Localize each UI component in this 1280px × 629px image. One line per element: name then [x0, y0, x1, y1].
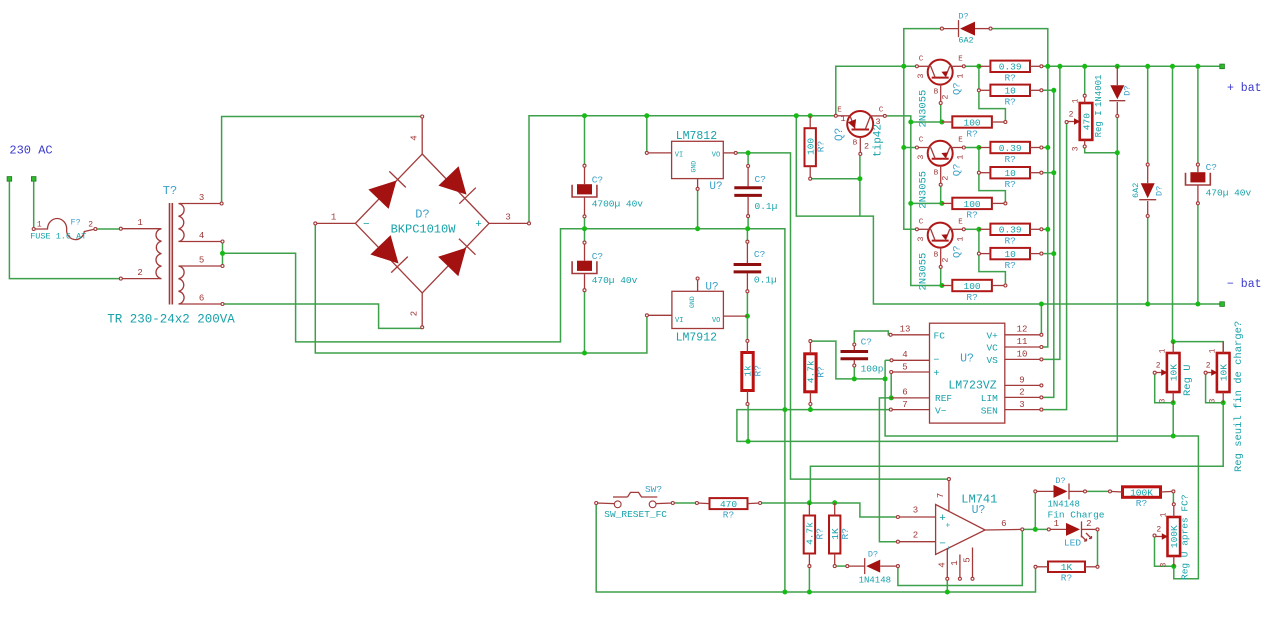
wire R2-3 elbow: [979, 254, 1006, 286]
svg-text:−: −: [363, 219, 370, 231]
svg-text:C: C: [879, 107, 884, 115]
resistor R7 470: [710, 498, 748, 509]
svg-text:3: 3: [505, 213, 510, 223]
wire bridge plus output to +V unregulated rail: [529, 116, 836, 224]
wire C4 bottom / LM7912 VO / R top node: [746, 291, 748, 341]
regulator U2 LM7912: [672, 291, 724, 328]
wire switch to R7: [673, 502, 697, 504]
junction at 1060,66: [1057, 64, 1062, 69]
junction at 1173,436: [1171, 434, 1176, 439]
wire C6 bottom to -bat: [1197, 203, 1199, 304]
svg-text:2N3055: 2N3055: [918, 171, 930, 209]
resistor R2c 10: [990, 248, 1030, 259]
junction at 785,592: [782, 590, 787, 595]
svg-text:D?: D?: [415, 208, 429, 222]
svg-text:10: 10: [1017, 350, 1028, 360]
wire LM723 pin4 elbow and line A to Reg U wiper net: [885, 359, 891, 361]
junction at 584,353: [582, 351, 587, 356]
regulator U1 LM7812: [672, 141, 724, 178]
svg-text:Reg U: Reg U: [1182, 364, 1194, 396]
svg-text:TR 230-24x2 200VA: TR 230-24x2 200VA: [107, 313, 235, 327]
trimpot Reg U 10K: [1167, 353, 1180, 392]
resistor R3c 100: [952, 280, 992, 291]
wire Reg seuil pin3 to 470 line: [810, 403, 1223, 503]
svg-text:U?: U?: [960, 353, 974, 366]
svg-text:R?: R?: [1004, 97, 1015, 108]
svg-text:1N4148: 1N4148: [1048, 499, 1080, 509]
wire +bat to LM723 VS: [1041, 66, 1060, 359]
wire transformer pin3 to bridge pin4 (AC1): [222, 117, 422, 204]
junction at 1048,148: [1045, 145, 1050, 150]
svg-text:13: 13: [900, 325, 911, 335]
wire rail to LM7812 VI: [646, 116, 648, 153]
junction at 1148,66: [1145, 64, 1150, 69]
svg-text:1: 1: [137, 218, 142, 228]
svg-text:4: 4: [902, 350, 907, 360]
junction at 222,253: [220, 251, 225, 256]
wire R2-1 left to R3-1 right elbow: [979, 90, 1006, 122]
IC U3 LM723 box: [930, 323, 1005, 423]
svg-text:R?: R?: [1004, 73, 1015, 84]
svg-text:1: 1: [840, 114, 845, 124]
svg-text:1K: 1K: [1061, 562, 1073, 573]
svg-text:B: B: [934, 89, 939, 97]
wire LM723 pin5 to REF: [890, 372, 892, 398]
wire R9 bottom to D4 anode: [835, 565, 848, 567]
resistor R10 100K bold: [1123, 487, 1161, 498]
svg-text:10: 10: [1004, 86, 1016, 97]
svg-text:Reg seuil fin de charge?: Reg seuil fin de charge?: [1233, 321, 1245, 472]
svg-text:V+: V+: [986, 331, 998, 342]
svg-text:2: 2: [1156, 526, 1161, 535]
svg-text:2: 2: [941, 176, 951, 181]
capacitor C4 0.1u: [734, 263, 762, 266]
svg-text:470µ 40v: 470µ 40v: [1206, 188, 1252, 199]
svg-text:VI: VI: [675, 317, 683, 325]
junction at 698,229: [695, 226, 700, 231]
wire Reg I pin3 to D2 cathode column: [1085, 147, 1118, 153]
terminal +bat: [1220, 64, 1225, 69]
svg-text:R?: R?: [1136, 498, 1147, 509]
junction at 1048,66: [1045, 64, 1050, 69]
junction at 1054,173: [1051, 170, 1056, 175]
svg-text:2: 2: [1019, 388, 1024, 398]
svg-text:VC: VC: [986, 343, 998, 354]
wire Reg U / Reg seuil pin1 feed from +bat: [1173, 66, 1224, 353]
svg-text:0.39: 0.39: [999, 143, 1022, 154]
svg-text:1: 1: [1209, 348, 1218, 353]
svg-text:3: 3: [1159, 562, 1168, 567]
wire R6 bottom to V- line: [809, 404, 811, 410]
wire Q3 emitter junction down: [978, 229, 980, 253]
capacitor C5 100p: [841, 350, 869, 353]
wire Q3 E to R1-3: [964, 228, 979, 230]
svg-text:4: 4: [938, 562, 948, 567]
transistor Q2 2N3055 #1: [928, 60, 953, 85]
svg-text:+: +: [933, 369, 939, 380]
junction at 854,379: [852, 376, 857, 381]
svg-text:R?: R?: [1004, 260, 1015, 271]
resistor R1a 0.39: [990, 61, 1030, 72]
wire Reg U wiper to pin3: [1155, 373, 1174, 403]
junction at 1054,254: [1051, 251, 1056, 256]
svg-text:D?: D?: [1123, 85, 1133, 95]
svg-text:5: 5: [902, 363, 907, 373]
svg-text:C: C: [919, 56, 924, 64]
wire C3 top to +12V: [747, 153, 749, 166]
svg-text:Q?: Q?: [952, 82, 964, 95]
svg-text:1: 1: [950, 560, 960, 565]
svg-text:2: 2: [941, 257, 951, 262]
svg-text:470µ 40v: 470µ 40v: [592, 275, 638, 286]
svg-text:BKPC1010W: BKPC1010W: [391, 223, 457, 237]
svg-text:3: 3: [916, 73, 926, 78]
svg-text:100p: 100p: [861, 364, 884, 375]
wire output node up to D5 anode: [1034, 491, 1036, 529]
svg-text:C?: C?: [592, 251, 603, 262]
svg-text:R?: R?: [1004, 154, 1015, 165]
svg-text:0.1µ: 0.1µ: [754, 275, 777, 286]
svg-text:Reg I: Reg I: [1094, 110, 1104, 137]
capacitor C6 470u: [1190, 172, 1205, 182]
svg-text:D?: D?: [1055, 476, 1065, 486]
wire C6 top to +bat: [1197, 66, 1199, 164]
wire D1 anode down the output column to LM723 VC: [991, 29, 1048, 347]
wire Q1 emitter junction down to R2: [978, 66, 980, 90]
junction at 584,229: [582, 226, 587, 231]
junction at 810,410: [808, 407, 813, 412]
resistor R3b 100: [952, 198, 992, 209]
svg-text:GND: GND: [689, 296, 696, 308]
wire base drive to Q2 base node: [911, 202, 942, 204]
junction at 1223,403: [1221, 400, 1226, 405]
svg-text:LIM: LIM: [981, 393, 998, 404]
wire transformer center tap pins 4-5: [222, 242, 224, 267]
svg-text:1: 1: [1159, 348, 1168, 353]
svg-text:R?: R?: [966, 128, 977, 139]
svg-text:10: 10: [1004, 168, 1016, 179]
svg-text:1: 1: [956, 236, 966, 241]
terminal -bat: [1220, 302, 1225, 307]
svg-text:LED: LED: [1064, 538, 1081, 549]
junction at 979,229: [976, 227, 981, 232]
svg-text:B: B: [934, 252, 939, 260]
wire R6 top to LM723 minus input node: [810, 341, 885, 379]
LM723 left pins: [891, 334, 930, 336]
wire base drive to Q1 base node: [911, 121, 942, 123]
svg-text:10K: 10K: [1219, 364, 1230, 381]
junction at 748,153: [746, 150, 751, 155]
svg-text:B: B: [934, 170, 939, 178]
junction at 904,66: [901, 64, 906, 69]
junction at 835,503: [832, 500, 837, 505]
svg-text:T?: T?: [163, 184, 177, 198]
wire REF divider down to LM741 inverting input: [879, 398, 898, 542]
svg-text:2: 2: [913, 531, 918, 541]
svg-text:100: 100: [964, 199, 981, 210]
wire bridge minus output to LM7912 VI: [315, 223, 647, 353]
svg-text:5: 5: [963, 557, 973, 562]
junction at 809,592: [807, 590, 812, 595]
wire C3 bottom to 0V line: [747, 216, 749, 229]
svg-text:10K: 10K: [1169, 364, 1180, 381]
svg-text:6: 6: [199, 294, 204, 304]
wire C4 top to 0V line: [746, 229, 748, 242]
junction at 860,179: [857, 176, 862, 181]
svg-text:2: 2: [941, 94, 951, 99]
svg-text:−: −: [933, 356, 939, 367]
wire tip42 emitter up to Q1 collector line: [836, 66, 917, 116]
svg-text:C?: C?: [1206, 162, 1217, 173]
svg-text:0.39: 0.39: [999, 225, 1022, 236]
svg-text:6A2: 6A2: [1131, 183, 1141, 198]
svg-text:Q?: Q?: [952, 164, 964, 177]
svg-text:E: E: [958, 56, 963, 64]
svg-text:tip42: tip42: [873, 124, 885, 157]
svg-text:4700µ 40v: 4700µ 40v: [592, 198, 644, 209]
svg-text:V−: V−: [935, 406, 947, 417]
svg-text:SW?: SW?: [645, 484, 662, 495]
junction at 885,379: [883, 376, 888, 381]
junction at 785,410: [782, 407, 787, 412]
svg-text:1: 1: [956, 155, 966, 160]
svg-text:6: 6: [1001, 519, 1006, 529]
svg-text:2: 2: [88, 221, 93, 230]
wire Q3 base to node: [940, 267, 942, 286]
resistor R1b 0.39: [990, 142, 1030, 153]
junction at 947,592: [945, 590, 950, 595]
junction at 1117,153: [1115, 150, 1120, 155]
wire D3 bottom to -bat: [1147, 216, 1149, 304]
wire R1-3 to output column: [1041, 228, 1047, 230]
resistor R5 1k bold: [742, 353, 753, 391]
svg-text:U?: U?: [705, 281, 718, 293]
svg-text:2N3055: 2N3055: [918, 253, 930, 291]
LED Fin Charge: [1066, 523, 1080, 536]
diode D3 6A2: [1141, 183, 1155, 198]
svg-text:R?: R?: [816, 366, 827, 377]
wire D2 cathode down to V- line B and LM723 V-: [737, 116, 1117, 441]
svg-text:− bat: − bat: [1227, 278, 1262, 291]
svg-text:R?: R?: [723, 510, 734, 521]
svg-text:0.1µ: 0.1µ: [755, 201, 778, 212]
svg-text:6: 6: [902, 388, 907, 398]
junction at 1035,529: [1033, 527, 1038, 532]
wire LM723 V+ to -bat line: [1040, 304, 1042, 335]
junction at 979,148: [976, 145, 981, 150]
svg-text:R?: R?: [815, 528, 826, 539]
svg-text:1: 1: [331, 213, 336, 223]
svg-text:R?: R?: [966, 210, 977, 221]
junction at 1054,90: [1051, 88, 1056, 93]
svg-text:7: 7: [902, 400, 907, 410]
svg-text:2: 2: [1086, 519, 1091, 529]
junction at 809,503: [807, 500, 812, 505]
wire C5 top to LM723 FC: [854, 331, 890, 345]
svg-text:100: 100: [964, 281, 981, 292]
wire AC live to fuse: [33, 181, 35, 229]
wire LED cathode to R11 right: [1097, 529, 1099, 566]
svg-text:2: 2: [1156, 362, 1161, 371]
svg-text:3: 3: [1072, 146, 1081, 151]
svg-text:R?: R?: [966, 292, 977, 303]
junction at 1048,229: [1045, 227, 1050, 232]
svg-text:100: 100: [964, 117, 981, 128]
svg-text:C?: C?: [861, 337, 872, 348]
svg-text:E: E: [958, 137, 963, 145]
svg-text:1: 1: [1054, 519, 1059, 529]
transistor Q1 tip42 PNP: [847, 111, 873, 137]
wire fuse to transformer pin1: [95, 228, 120, 230]
svg-text:Q?: Q?: [952, 245, 964, 258]
resistor R6 4.7k bold: [805, 354, 816, 392]
svg-text:10: 10: [1004, 249, 1016, 260]
wire R5 bottom to line B: [747, 404, 749, 441]
junction at 1198,304: [1195, 302, 1200, 307]
svg-text:6A2: 6A2: [958, 36, 973, 46]
svg-text:1: 1: [37, 221, 42, 230]
capacitor C1 4700u electrolytic: [577, 184, 592, 194]
bridge rectifier D1 BKPC1010W: [355, 154, 489, 293]
svg-text:2: 2: [864, 142, 869, 152]
transistor Q3 2N3055 #2: [928, 141, 953, 166]
wire switch left down to bottom rail up to R11 left: [596, 503, 1035, 592]
wire transformer pin6 to bridge pin2 (AC2): [223, 304, 422, 328]
svg-text:1: 1: [1159, 512, 1168, 517]
junction at 747,316: [745, 314, 750, 319]
junction at 1085,66: [1082, 64, 1087, 69]
wire tip42 collector to base-drive column: [885, 116, 942, 286]
wire +bat line: [1041, 65, 1222, 67]
svg-text:1: 1: [1072, 98, 1081, 103]
svg-text:230 AC: 230 AC: [9, 143, 52, 157]
svg-text:0.39: 0.39: [999, 62, 1022, 73]
svg-text:+ bat: + bat: [1227, 82, 1262, 95]
junction at 979,66: [976, 64, 981, 69]
svg-text:3: 3: [913, 506, 918, 516]
switch SW1 SW_RESET_FC: [614, 501, 621, 508]
svg-text:−: −: [946, 545, 955, 550]
svg-text:R?: R?: [753, 365, 764, 376]
svg-text:R?: R?: [1061, 573, 1072, 584]
junction at 647,116: [644, 113, 649, 118]
wire AC neutral to transformer pin2: [9, 181, 120, 278]
wire +bat to Reg I pin1: [1084, 66, 1086, 95]
transistor Q4 2N3055 #3: [928, 223, 953, 248]
fuse F1: [34, 218, 96, 239]
wire Reg seuil wiper to pin3: [1206, 373, 1224, 403]
svg-text:470: 470: [1081, 113, 1092, 130]
wire 10-ohm sense column to LM723 LIM: [1041, 90, 1053, 397]
wire tip42 base node vertical: [859, 154, 861, 216]
svg-text:R?: R?: [1004, 179, 1015, 190]
wire 0V rail: center tap to caps/GND line down to bottom: [223, 229, 785, 592]
svg-text:B: B: [853, 140, 858, 148]
wire Reg U apres FC wiper to pin3: [1155, 536, 1174, 567]
wire LM7812 GND to 0V line: [697, 189, 699, 229]
svg-text:3: 3: [1159, 398, 1168, 403]
svg-text:F?: F?: [71, 218, 81, 228]
wire D4 cathode to LM741 output node: [898, 529, 1022, 585]
junction at 942,122: [939, 120, 944, 125]
svg-text:3: 3: [916, 155, 926, 160]
diode D2 1N4001: [1110, 85, 1124, 99]
svg-text:LM7912: LM7912: [676, 331, 718, 344]
svg-text:1: 1: [956, 73, 966, 78]
svg-text:470: 470: [720, 499, 737, 510]
junction at 748,441: [746, 439, 751, 444]
svg-text:VO: VO: [712, 151, 720, 159]
svg-text:4: 4: [410, 135, 420, 140]
wire R2-2 elbow: [979, 173, 1006, 204]
junction at 1041,304: [1039, 302, 1044, 307]
junction at 942,286: [939, 283, 944, 288]
wire C5 bottom to minus-input node: [853, 366, 855, 379]
junction at 911,122: [908, 120, 913, 125]
trimpot Reg seuil 10K: [1217, 353, 1230, 392]
svg-text:C: C: [919, 137, 924, 145]
wire D3 top from +bat: [1147, 66, 1149, 164]
junction at 1173,403: [1171, 400, 1176, 405]
svg-text:C?: C?: [754, 249, 765, 260]
svg-text:1N4148: 1N4148: [859, 576, 891, 586]
junction at 891,398: [889, 395, 894, 400]
trimpot Reg U apres FC 100K: [1168, 517, 1181, 556]
node 230AC-N terminal: [31, 177, 36, 182]
svg-text:7: 7: [936, 493, 946, 498]
junction at 911,203: [908, 201, 913, 206]
junction at 1174,566: [1171, 564, 1176, 569]
svg-text:C?: C?: [592, 174, 603, 185]
junction at 1172,66: [1170, 64, 1175, 69]
svg-text:Reg U apres FC?: Reg U apres FC?: [1180, 494, 1191, 580]
svg-text:SW_RESET_FC: SW_RESET_FC: [604, 509, 667, 520]
svg-text:3: 3: [1019, 400, 1024, 410]
junction at 796,116: [794, 113, 799, 118]
wire C2 bottom to negative line: [584, 290, 586, 353]
junction at 904,148: [901, 145, 906, 150]
junction at 1173,342: [1171, 339, 1176, 344]
junction at 1198,66: [1195, 64, 1200, 69]
svg-text:4: 4: [199, 231, 204, 241]
wire Q1 E to R1-1: [964, 65, 979, 67]
svg-text:GND: GND: [691, 161, 698, 173]
svg-text:FC: FC: [934, 331, 946, 342]
wire collector column to Q3 collector: [904, 66, 917, 229]
svg-text:VO: VO: [712, 317, 720, 325]
svg-text:LM7812: LM7812: [676, 130, 718, 143]
wire LM741 output to LED anode: [1022, 528, 1049, 530]
wire C1 bottom to C2 top: [584, 216, 586, 242]
wire collector node up to D1 loop: [904, 29, 942, 67]
resistor R1c 0.39: [990, 224, 1030, 235]
capacitor C3 0.1u: [734, 186, 762, 189]
svg-text:9: 9: [1019, 376, 1024, 386]
svg-text:C: C: [919, 219, 924, 227]
LM723 right pins: [1005, 334, 1042, 336]
diode D4 1N4148: [866, 560, 880, 573]
svg-text:2: 2: [410, 311, 420, 316]
svg-text:2: 2: [1069, 111, 1074, 120]
junction at 584,116: [582, 113, 587, 118]
junction at 1148,304: [1145, 302, 1150, 307]
svg-text:+: +: [945, 522, 954, 527]
svg-text:2: 2: [1206, 362, 1211, 371]
svg-text:R?: R?: [840, 528, 851, 539]
svg-text:3: 3: [1209, 398, 1218, 403]
svg-text:C?: C?: [755, 174, 766, 185]
wire collector column to Q2 collector: [904, 147, 917, 149]
